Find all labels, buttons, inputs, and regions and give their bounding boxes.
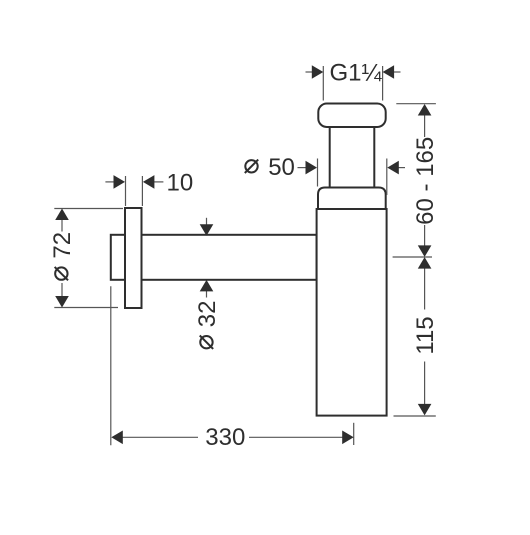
svg-text:330: 330 [205,424,245,451]
svg-text:72: 72 [49,232,76,259]
svg-text:32: 32 [194,301,221,328]
svg-text:50: 50 [268,154,295,181]
svg-text:115: 115 [412,316,439,354]
svg-text:G1¼: G1¼ [330,60,383,87]
svg-text:10: 10 [167,170,194,197]
svg-text:60 - 165: 60 - 165 [412,137,439,225]
